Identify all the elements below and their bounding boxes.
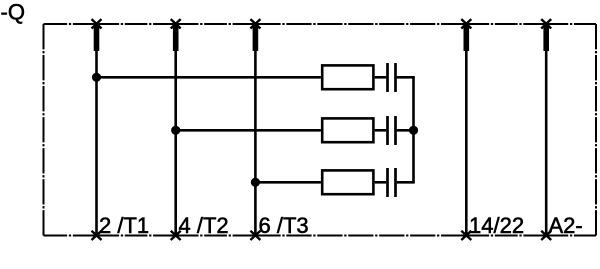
junction dot star point <box>409 126 418 135</box>
enclosure outline segment (bottom 4) <box>255 235 466 237</box>
svg-text:A2-: A2- <box>549 213 583 238</box>
junction dot node L1/R1 <box>92 73 101 82</box>
connection point X bottom 14/22 <box>461 231 471 240</box>
enclosure outline segment (top 2) <box>97 23 176 25</box>
wire: phase conductor 4/T2 <box>174 24 177 236</box>
connection point X bottom 6/T3 <box>250 231 260 240</box>
enclosure outline segment (bottom 2) <box>97 235 176 237</box>
svg-text:4 /T2: 4 /T2 <box>179 213 229 238</box>
wire row 2 (R2 to C2) <box>375 129 387 132</box>
wire row 1 (from 2/T1 to R1) <box>97 76 321 79</box>
contact bar terminal 2/T1 <box>94 25 100 51</box>
contact bar terminal 6/T3 <box>253 25 259 51</box>
enclosure outline segment (top 6) <box>546 23 596 25</box>
contact bar terminal 14/22 <box>463 25 469 51</box>
wire row 3 (R3 to C3) <box>375 181 387 184</box>
enclosure outline segment (top 3) <box>176 23 256 25</box>
enclosure outline segment (bottom 1) <box>44 235 97 237</box>
connection point X bottom 2/T1 <box>92 231 102 240</box>
connection point X top A2 <box>541 19 551 28</box>
enclosure outline segment (bottom 3) <box>176 235 256 237</box>
enclosure outline segment (top 4) <box>255 23 466 25</box>
wire: star-point bus <box>412 77 415 182</box>
connection point X top 4/T2 <box>171 19 181 28</box>
wire: phase conductor 6/T3 <box>254 24 257 236</box>
wire row 1 (R1 to C1) <box>375 76 387 79</box>
svg-text:14/22: 14/22 <box>469 213 524 238</box>
wire row 2 (C2 to bus) <box>397 129 415 132</box>
capacitor C3 <box>388 168 396 197</box>
wire row 3 (C3 to bus) <box>397 181 415 184</box>
svg-text:2 /T1: 2 /T1 <box>99 213 149 238</box>
capacitor C2 <box>388 116 396 145</box>
enclosure outline left edge (dash-dot) <box>43 24 45 236</box>
wire row 2 (from 4/T2 to R2) <box>176 129 321 132</box>
connection point X top 14/22 <box>461 19 471 28</box>
connection point X bottom A2 <box>541 231 551 240</box>
connection point X bottom 4/T2 <box>171 231 181 240</box>
wire: coil conductor A2 <box>545 24 548 236</box>
contact bar terminal 4/T2 <box>173 25 179 51</box>
wire row 1 (C1 to bus) <box>397 76 415 79</box>
enclosure outline segment (top 1) <box>44 23 97 25</box>
wire: phase conductor 2/T1 <box>95 24 98 236</box>
resistor R1 <box>322 65 373 89</box>
enclosure outline segment (bottom 5) <box>466 235 546 237</box>
svg-text:-Q: -Q <box>1 0 25 24</box>
svg-text:6 /T3: 6 /T3 <box>259 213 309 238</box>
resistor R3 <box>322 170 373 194</box>
connection point X top 2/T1 <box>92 19 102 28</box>
wire: aux contact conductor 14/22 <box>465 24 468 236</box>
enclosure outline right edge (dash-dot) <box>595 24 597 236</box>
enclosure outline segment (bottom 6) <box>546 235 596 237</box>
wire row 3 (from 6/T3 to R3) <box>255 181 321 184</box>
resistor R2 <box>322 118 373 142</box>
junction dot node L2/R2 <box>171 126 180 135</box>
capacitor C1 <box>388 63 396 92</box>
enclosure outline segment (top 5) <box>466 23 546 25</box>
contact bar terminal A2 <box>543 25 549 51</box>
junction dot node L3/R3 <box>251 178 260 187</box>
connection point X top 6/T3 <box>250 19 260 28</box>
